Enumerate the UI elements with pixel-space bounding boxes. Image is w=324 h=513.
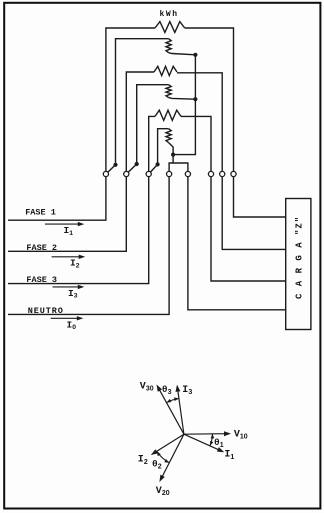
wire: FASE 1 line to terminal 1 — [8, 177, 106, 221]
wire: coil 1 right lead to terminal 8 column — [185, 28, 234, 172]
current arrow I0 — [51, 317, 79, 319]
wire: FASE 3 line to terminal 3 — [8, 177, 149, 284]
wire: coil 1 left lead to terminal 1 column — [106, 28, 155, 172]
wire: terminal 8 to load phase 1 — [234, 177, 286, 218]
meter terminal 3 — [146, 171, 151, 176]
svg-text:FASE 2: FASE 2 — [26, 243, 57, 253]
phasor V30 arrowhead — [157, 385, 163, 392]
wire: terminal 5 to load neutral — [188, 177, 286, 310]
wire: potential coil 3 top tap to link dot column — [158, 129, 169, 163]
junction dot: potential tap link 2 — [135, 162, 139, 166]
phasor V30 vector line — [159, 388, 184, 434]
wire: NEUTRO line to terminal 4 — [8, 177, 169, 315]
phasor I1 vector line — [184, 434, 220, 450]
wire: potential coil 3 bottom to neutral junction — [169, 143, 174, 155]
junction dot: potential tap link 3 — [156, 162, 160, 166]
current arrow I3 — [53, 286, 80, 288]
current coil element 3 (phase 3) — [155, 110, 181, 120]
wire: bracket joining terminals 4 and 5 — [169, 163, 188, 172]
phasor V20 arrowhead — [159, 475, 164, 482]
phasor I3 arrowhead — [176, 385, 181, 392]
jumper link terminal 3 to potential tap dot — [149, 164, 158, 173]
wire: potential coil 2 bottom to neutral common column — [169, 98, 196, 100]
phasor I2 vector line — [155, 434, 184, 452]
svg-text:kWh: kWh — [160, 10, 179, 19]
meter terminal 6 — [208, 171, 213, 176]
meter terminal 5 — [185, 171, 190, 176]
meter terminal 8 — [231, 171, 236, 176]
phasor I3 vector line — [178, 389, 184, 434]
phasor V10 arrowhead — [224, 431, 231, 436]
potential coil element 1 (phase 1 voltage coil) — [166, 39, 171, 53]
current arrow I2 — [52, 256, 81, 258]
load box CARGA "Z" — [286, 199, 311, 330]
jumper link terminal 1 to potential tap dot — [107, 165, 116, 174]
angle arc theta1 (between V10 and I1) — [210, 434, 213, 446]
wire: FASE 2 line to terminal 2 — [8, 177, 126, 252]
svg-text:FASE 3: FASE 3 — [26, 275, 57, 285]
wire: potential coil 1 bottom to neutral common column — [169, 53, 196, 55]
wire: coil 3 right lead to terminal 6 column — [181, 116, 211, 171]
meter terminal 1 — [103, 171, 108, 176]
current coil element 1 (kWh meter, phase 1) — [155, 22, 185, 33]
svg-text:C A R G A "Z": C A R G A "Z" — [294, 216, 304, 299]
svg-text:NEUTRO: NEUTRO — [28, 306, 64, 316]
wire: coil 2 left lead to terminal 2 column — [126, 72, 154, 172]
junction dot: neutral node at bracket feed — [171, 153, 175, 157]
wire: potential coil 2 top tap to link dot column — [137, 85, 169, 163]
junction dot: common column node 1 — [193, 53, 197, 57]
phasor V20 vector line — [162, 434, 184, 478]
meter terminal 7 — [220, 171, 225, 176]
potential coil element 3 (phase 3 voltage coil) — [166, 129, 171, 143]
wire: potential-coil common column (neutral bus inside meter) — [173, 55, 195, 155]
junction dot: potential tap link 1 — [113, 163, 117, 167]
current coil element 2 (phase 2) — [154, 66, 177, 75]
wire: coil 3 left lead to terminal 3 column — [149, 116, 155, 171]
phasor I1 arrowhead — [217, 447, 224, 452]
jumper link terminal 2 to potential tap dot — [127, 164, 137, 174]
potential coil element 2 (phase 2 voltage coil) — [166, 85, 171, 98]
phasor I2 arrowhead — [151, 449, 158, 455]
wire: terminal 7 to load phase 2 — [222, 177, 286, 250]
wire: neutral feed to terminal bracket — [172, 155, 174, 163]
wire: potential coil 1 top tap to link dot column — [116, 39, 169, 163]
wire: terminal 6 to load phase 3 — [211, 177, 286, 282]
svg-text:FASE 1: FASE 1 — [25, 208, 56, 218]
angle arc theta3 (between V30 and I3) — [167, 399, 179, 403]
angle arc theta2 (between I2 and V20) — [157, 451, 170, 463]
current arrow I1 — [45, 223, 79, 225]
meter terminal 4 — [167, 171, 172, 176]
phasor V10 vector line — [184, 433, 227, 436]
meter terminal 2 — [124, 171, 129, 176]
wire: coil 2 right lead to terminal 7 column — [177, 73, 222, 172]
junction dot: common column node 2 — [193, 97, 197, 101]
